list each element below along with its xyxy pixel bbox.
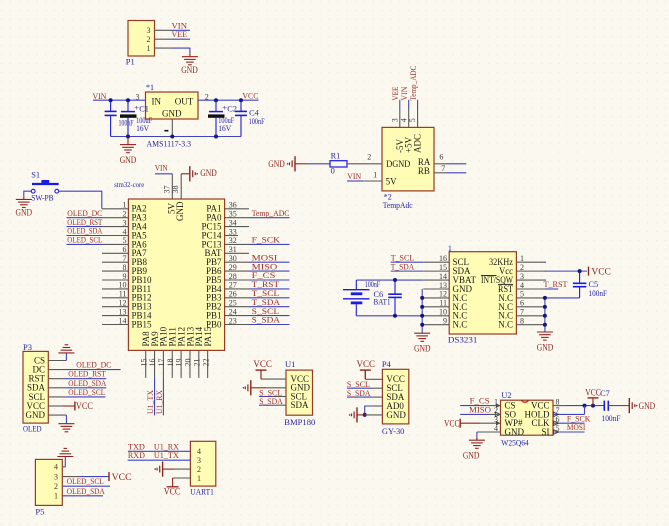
svg-text:SDA: SDA: [291, 400, 310, 410]
wire VCC to WP#: [460, 422, 480, 424]
svg-text:T_SDA: T_SDA: [391, 261, 415, 271]
pin arrow HOLD: [554, 412, 559, 417]
power ground GND at stm32 top: [189, 166, 191, 181]
svg-text:8: 8: [556, 397, 560, 406]
wire S1 to stm32 pin 1: [59, 191, 102, 209]
svg-text:1: 1: [197, 474, 201, 483]
svg-text:37: 37: [162, 186, 171, 194]
stm32 pin 11 PB12: [102, 297, 128, 299]
DS3231 pin 9 N.C: [423, 324, 449, 326]
DS3231 pin 8 N.C: [516, 324, 545, 326]
svg-text:100nF: 100nF: [589, 289, 608, 298]
svg-text:3: 3: [123, 218, 127, 227]
wire net S_SCL to GY-30: [347, 387, 371, 389]
power port VCC above U2: [588, 397, 599, 399]
svg-text:SI: SI: [541, 427, 549, 437]
svg-text:6: 6: [123, 245, 127, 254]
svg-text:VCC: VCC: [112, 472, 132, 482]
wire VCC at P3: [48, 405, 63, 407]
flash memory U2 W25Q64: [501, 400, 554, 435]
svg-text:VCC: VCC: [444, 418, 460, 428]
power ground at GY-30: [356, 407, 358, 422]
wire VCC to BMP180: [260, 370, 262, 379]
node junction pin 12: [420, 296, 424, 300]
svg-text:7: 7: [123, 254, 127, 263]
ground GND below AMS1117: [127, 137, 129, 145]
stm32 pin 15 PA8: [145, 350, 147, 378]
stm32 pin 26 PB3: [225, 297, 249, 299]
node junction VCC stem: [591, 404, 595, 408]
capacitor C1 100uF 16V: [127, 100, 129, 111]
DS3231 pin 15 SDA: [423, 270, 449, 272]
svg-text:6: 6: [520, 299, 524, 308]
node junction HOLD tie: [583, 404, 587, 408]
connector P5: [35, 459, 62, 505]
svg-text:0: 0: [331, 166, 335, 175]
ground GND below DS3231 right: [537, 331, 553, 333]
wire net MISO: [249, 270, 290, 272]
svg-text:10: 10: [439, 308, 447, 317]
DS3231 pin 7 N.C: [516, 315, 545, 317]
wire net U1_RX to UART1 pin 4: [128, 450, 190, 452]
svg-text:15: 15: [439, 263, 447, 272]
sensor module P4 GY-30: [382, 369, 408, 424]
node junction C4 top: [239, 98, 243, 102]
svg-text:12: 12: [439, 290, 447, 299]
svg-text:U2: U2: [501, 390, 511, 400]
svg-text:9: 9: [123, 272, 127, 281]
wire net T_SDA: [391, 270, 424, 272]
svg-text:P5: P5: [35, 507, 44, 517]
battery BAT1: [355, 280, 357, 290]
svg-text:VCC: VCC: [242, 91, 258, 101]
wire net S_SCL: [249, 315, 290, 317]
DS3231 pin 10 N.C: [423, 315, 449, 317]
svg-text:4: 4: [123, 227, 127, 236]
DS3231 pin 12 N.C: [423, 297, 449, 299]
svg-text:3: 3: [54, 472, 58, 481]
ground flipped above P3: [58, 352, 74, 354]
svg-text:VCC: VCC: [164, 486, 181, 496]
svg-text:RB: RB: [418, 166, 430, 176]
wire net T_SCL: [391, 261, 424, 263]
power port VCC above BMP180: [256, 369, 267, 371]
svg-text:36: 36: [229, 201, 237, 210]
wire AD0 to ground: [374, 405, 383, 407]
svg-text:P1: P1: [126, 57, 135, 67]
stm32 pin 28 PB5: [225, 279, 249, 281]
node junction pin 11: [420, 305, 424, 309]
connector P1: [128, 21, 155, 57]
stm32 pin 30 PB7: [225, 261, 249, 263]
svg-text:5: 5: [408, 118, 417, 122]
wire VCC net pin 8: [553, 405, 566, 407]
wire net T_SDA: [249, 306, 290, 308]
wire net MOSI: [249, 261, 290, 263]
stm32 pin 32 PC13: [225, 243, 249, 245]
node junction C5 top: [578, 269, 582, 273]
wire ground to UART1 pin 2: [163, 468, 174, 470]
wire net MOSI: [553, 431, 585, 433]
wire UART1 pin 1 to VCC: [173, 477, 191, 479]
stm32 pin 21 PA14: [198, 350, 200, 378]
svg-text:7: 7: [520, 308, 524, 317]
svg-text:33: 33: [229, 227, 237, 236]
DS3231 pin 2 Vcc: [516, 270, 546, 272]
wire DS3231 ground bus: [421, 289, 423, 333]
svg-text:11: 11: [119, 290, 127, 299]
stm32 pin 24 PB1: [225, 315, 249, 317]
svg-text:1: 1: [147, 44, 151, 53]
capacitor C2 100uF 16V: [215, 100, 217, 111]
wire VEE from P1 pin 2: [155, 38, 172, 40]
ground GND below U2: [476, 438, 478, 440]
stm32 pin 17 PA10: [162, 350, 164, 378]
node junction C1 top: [126, 98, 130, 102]
stm32 pin 36 PA1: [225, 208, 249, 210]
node junction pin 10: [420, 314, 424, 318]
svg-text:23: 23: [229, 316, 237, 325]
regulator GND pin wire: [171, 119, 173, 137]
wire regulator OUT to VCC: [198, 99, 259, 101]
sensor U1 BMP180: [286, 370, 313, 415]
DS3231 pin 4 RST: [516, 288, 546, 290]
power port VCC at P5: [108, 472, 110, 481]
svg-text:2: 2: [197, 465, 201, 474]
svg-text:DS3231: DS3231: [448, 336, 478, 345]
node junction C3 top: [109, 98, 113, 102]
power port VCC at P3: [74, 402, 76, 411]
svg-text:DGND: DGND: [386, 159, 410, 169]
wire net F_CS: [460, 405, 489, 407]
wire HOLD to VCC net: [553, 413, 585, 415]
DS3231 pin 1 32KHz: [516, 261, 546, 263]
node junction right pin 7: [543, 314, 547, 318]
svg-text:4: 4: [399, 118, 408, 122]
wire net S_SDA: [249, 324, 290, 326]
svg-text:30: 30: [229, 254, 237, 263]
svg-text:N.C: N.C: [453, 320, 468, 330]
wire S1 to ground: [24, 191, 32, 196]
svg-text:5: 5: [123, 236, 127, 245]
stm32 pin 3 PA4: [102, 226, 128, 228]
wire VBAT rail: [356, 279, 423, 281]
power port VCC below UART1: [167, 486, 179, 488]
svg-text:OLED_SCL: OLED_SCL: [68, 387, 105, 397]
wire net OLED_RST at P3: [48, 378, 66, 380]
wire ground to R1: [295, 163, 307, 165]
svg-text:13: 13: [439, 281, 447, 290]
svg-text:100nF: 100nF: [365, 280, 381, 289]
power ground GND at R1: [294, 156, 296, 171]
svg-text:1: 1: [448, 244, 452, 253]
wire VIN to pin 37: [155, 173, 172, 175]
node junction C2 bottom: [214, 135, 218, 139]
svg-text:U1_TX: U1_TX: [154, 450, 180, 460]
svg-text:16V: 16V: [136, 124, 149, 133]
stm32 pin 18 PA11: [171, 350, 173, 378]
node junction AD0 GND: [363, 413, 367, 417]
stm32 pin 8 PB9: [102, 270, 128, 272]
svg-text:VCC: VCC: [253, 359, 272, 369]
svg-text:4: 4: [54, 463, 58, 472]
node junction C2 top: [214, 98, 218, 102]
stm32 pin 12 PB13: [102, 306, 128, 308]
wire net F_SCK: [249, 243, 290, 245]
svg-text:MOSI: MOSI: [567, 422, 586, 432]
svg-text:2: 2: [123, 210, 127, 219]
stm32 pin 33 PC14: [225, 235, 238, 237]
svg-text:F_SCK: F_SCK: [252, 235, 281, 245]
svg-text:OLED_SCL: OLED_SCL: [67, 476, 104, 486]
stm32 pin 1 PA2: [102, 208, 128, 210]
wire VIN to TempAdc pin 1: [347, 180, 363, 182]
wire net Temp_ADC: [249, 217, 290, 219]
wire net OLED_DC at P3: [48, 369, 66, 371]
svg-text:32: 32: [229, 236, 237, 245]
svg-text:OLED_SCL: OLED_SCL: [67, 235, 102, 245]
svg-text:1: 1: [520, 254, 524, 263]
svg-text:2: 2: [367, 152, 371, 161]
svg-text:2: 2: [520, 263, 524, 272]
svg-text:16: 16: [439, 254, 447, 263]
svg-text:GND: GND: [537, 343, 554, 353]
capacitor C3 100nF: [110, 100, 112, 111]
svg-text:VCC: VCC: [357, 359, 376, 369]
stm32 pin 22 PA15: [207, 350, 209, 378]
wire C5 bottom to N.C bus: [545, 297, 580, 299]
pin arrow CLK: [554, 421, 559, 426]
svg-text:OLED_SDA: OLED_SDA: [67, 486, 106, 496]
wire DS3231 right ground bus: [544, 298, 546, 332]
ground flipped above P5: [57, 456, 73, 458]
DS3231 pin 6 N.C: [516, 306, 545, 308]
svg-text:*1: *1: [146, 83, 154, 92]
wire net T_RST: [249, 288, 290, 290]
power port VCC at WP#: [459, 419, 461, 428]
wire P5 pin 3 to VCC: [62, 476, 80, 478]
wire net U1_TX from pin 16: [154, 378, 156, 415]
stm32 pin 5 PA6: [102, 243, 128, 245]
svg-text:34: 34: [229, 218, 237, 227]
wire net OLED_RST: [67, 226, 103, 228]
svg-text:Temp_ADC: Temp_ADC: [252, 208, 290, 218]
svg-text:10: 10: [119, 281, 127, 290]
svg-text:R1: R1: [331, 152, 341, 161]
DS3231 pin 5 N.C: [516, 297, 545, 299]
svg-text:OLED: OLED: [23, 425, 42, 434]
wire VIN rail to regulator IN: [93, 99, 146, 101]
pin arrow WP#: [496, 421, 501, 425]
svg-text:GND: GND: [16, 207, 33, 217]
svg-text:11: 11: [439, 299, 447, 308]
svg-text:6: 6: [439, 152, 443, 161]
svg-text:N.C: N.C: [498, 320, 513, 330]
stm32 pin 34 PC15: [225, 226, 249, 228]
svg-text:25: 25: [229, 299, 237, 308]
connector P3 OLED: [23, 351, 48, 423]
svg-text:GND: GND: [414, 344, 431, 354]
capacitor C7 100nF: [603, 401, 605, 411]
TempAdc pin 5 ADC: [417, 100, 419, 110]
svg-text:BMP180: BMP180: [284, 418, 315, 427]
wire net OLED_DC: [67, 217, 103, 219]
svg-text:GND: GND: [120, 155, 137, 165]
power port VCC right of DS3231: [588, 267, 590, 276]
svg-text:31: 31: [229, 245, 237, 254]
pin arrow CS: [496, 403, 501, 407]
stm32 pin 25 PB2: [225, 306, 249, 308]
svg-text:S1: S1: [31, 170, 40, 180]
wire GND pin 4: [477, 431, 501, 433]
svg-text:24: 24: [229, 307, 237, 316]
svg-text:20: 20: [184, 359, 193, 367]
DS3231 pin 3 INT/SQW: [516, 279, 546, 281]
svg-text:38: 38: [171, 186, 180, 194]
svg-text:PA15: PA15: [203, 326, 213, 346]
svg-text:VCC: VCC: [585, 387, 601, 397]
ground GND below DS3231 left: [414, 332, 430, 334]
capacitor C4 100nF: [240, 100, 242, 111]
svg-text:Temp_ADC: Temp_ADC: [408, 66, 418, 101]
svg-text:GND: GND: [386, 410, 406, 420]
node junction right pin 6: [543, 305, 547, 309]
stm32 pin 38 GND: [180, 174, 182, 199]
svg-text:16V: 16V: [218, 124, 231, 133]
svg-text:T_RST: T_RST: [544, 279, 569, 289]
polarity dash: [164, 130, 168, 132]
svg-text:12: 12: [119, 299, 127, 308]
stm32 pin 20 PA13: [189, 350, 191, 378]
TempAdc pin 6 RA wire: [434, 163, 447, 165]
svg-text:P3: P3: [23, 342, 32, 352]
power ground right of C7: [628, 398, 630, 413]
ground GND below P1: [189, 54, 191, 57]
svg-text:IN: IN: [152, 97, 162, 107]
mcu module stm32-core: [128, 199, 224, 350]
svg-text:29: 29: [229, 263, 237, 272]
svg-text:C5: C5: [589, 280, 599, 289]
svg-text:VCC: VCC: [76, 401, 93, 411]
svg-text:9: 9: [443, 317, 447, 326]
svg-text:7: 7: [441, 164, 445, 173]
svg-text:S_SDA: S_SDA: [259, 396, 283, 406]
node junction right pin 8: [543, 323, 547, 327]
svg-text:P4: P4: [382, 359, 392, 369]
stm32 pin 27 PB4: [225, 288, 249, 290]
wire net OLED_SDA at P3: [48, 387, 66, 389]
stm32 pin 14 PB15: [102, 324, 128, 326]
wire pin 38 to ground: [181, 173, 190, 175]
svg-text:15: 15: [139, 359, 148, 367]
ground GND at S1: [23, 197, 25, 200]
wire C7 to ground: [608, 405, 629, 407]
stm32 pin 13 PB14: [102, 315, 128, 317]
svg-text:35: 35: [229, 210, 237, 219]
wire Vcc to power: [545, 270, 587, 272]
power ground at BMP180 GND pin: [250, 380, 252, 395]
node junction C6 top: [393, 278, 397, 282]
bottom ground rail wire: [111, 136, 241, 138]
svg-text:5: 5: [520, 290, 524, 299]
svg-text:100nF: 100nF: [119, 119, 134, 128]
svg-text:8: 8: [123, 263, 127, 272]
svg-text:S_SDA: S_SDA: [347, 388, 371, 398]
svg-text:VEE: VEE: [172, 29, 188, 39]
svg-text:GND: GND: [200, 168, 217, 178]
svg-text:2: 2: [147, 35, 151, 44]
node junction C6 bottom: [393, 314, 397, 318]
DS3231 pin 11 N.C: [423, 306, 449, 308]
wire from P1 pin 1 to ground: [155, 47, 172, 49]
wire net U1_TX to UART1 pin 3: [128, 459, 191, 461]
svg-text:14: 14: [439, 272, 447, 281]
rtc U DS3231: [449, 252, 516, 334]
svg-text:TempAdc: TempAdc: [383, 201, 413, 210]
svg-text:8: 8: [520, 317, 524, 326]
svg-text:RXD: RXD: [128, 450, 145, 460]
TempAdc pin 7 RB wire: [434, 172, 447, 174]
svg-text:C4: C4: [249, 108, 260, 117]
wire net S_SDA to GY-30: [347, 396, 371, 398]
svg-text:C7: C7: [600, 389, 610, 398]
svg-text:S_SDA: S_SDA: [252, 315, 281, 325]
svg-text:UART1: UART1: [190, 487, 214, 496]
svg-text:26: 26: [229, 290, 237, 299]
node junction pin 9: [420, 323, 424, 327]
stm32 pin 7 PB8: [102, 261, 128, 263]
stm32 pin 10 PB11: [102, 288, 128, 290]
svg-text:GND: GND: [26, 410, 46, 420]
wire P5 pin 4 to ground: [62, 466, 65, 468]
svg-text:GND: GND: [505, 427, 525, 437]
capacitor C5 100nF: [579, 271, 581, 283]
svg-text:100nF: 100nF: [602, 414, 621, 423]
stm32 pin 4 PA5: [102, 235, 128, 237]
wire net OLED_SCL: [67, 243, 103, 245]
svg-text:28: 28: [229, 272, 237, 281]
svg-text:VIN: VIN: [347, 171, 362, 181]
wire GND at P3: [48, 414, 66, 416]
ground GND below P3: [58, 423, 74, 425]
svg-text:GND: GND: [639, 401, 656, 411]
resistor R1 0 ohm: [330, 161, 347, 167]
svg-text:16: 16: [148, 359, 157, 367]
TempAdc pin 3 -5V: [399, 100, 401, 110]
stm32 pin 31 BAT: [225, 252, 249, 254]
TempAdc pin 4 +5V: [408, 100, 410, 110]
svg-text:5V: 5V: [386, 177, 398, 187]
svg-text:19: 19: [175, 359, 184, 367]
svg-text:OUT: OUT: [175, 97, 194, 107]
svg-text:27: 27: [229, 281, 237, 290]
svg-text:MISO: MISO: [469, 405, 491, 415]
svg-text:VCC: VCC: [591, 267, 611, 277]
wire VCC to GY-30: [364, 370, 366, 379]
wire net S_SCL to BMP180: [259, 396, 272, 398]
wire net S_SDA to BMP180: [259, 404, 272, 406]
DS3231 pin 16 SCL: [423, 261, 449, 263]
svg-text:BAT1: BAT1: [374, 298, 391, 307]
svg-text:4: 4: [520, 281, 524, 290]
stm32 pin 23 PB0: [225, 324, 249, 326]
svg-text:GND: GND: [175, 201, 185, 221]
svg-text:SW-PB: SW-PB: [31, 194, 54, 203]
power ground at UART1 pin 2: [162, 462, 164, 477]
svg-text:3: 3: [147, 26, 151, 35]
svg-text:3: 3: [390, 118, 399, 122]
svg-text:U1_RX: U1_RX: [154, 389, 164, 414]
